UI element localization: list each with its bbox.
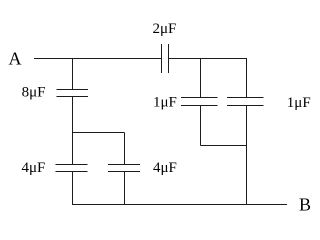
svg-text:4μF: 4μF (22, 160, 46, 176)
svg-text:4μF: 4μF (153, 160, 177, 176)
svg-text:1μF: 1μF (153, 94, 177, 110)
svg-text:8μF: 8μF (22, 85, 46, 101)
svg-text:2μF: 2μF (153, 21, 177, 37)
svg-text:B: B (299, 195, 311, 215)
svg-text:A: A (9, 49, 22, 69)
svg-text:1μF: 1μF (287, 95, 311, 111)
